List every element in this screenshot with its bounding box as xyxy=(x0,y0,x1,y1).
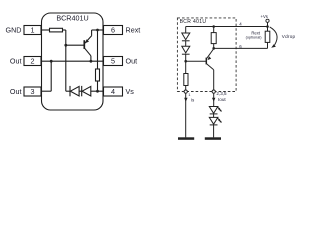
svg-text:2: 2 xyxy=(31,57,35,66)
svg-text:6: 6 xyxy=(111,26,115,35)
pin 3 box xyxy=(24,87,41,96)
svg-text:(optional): (optional) xyxy=(246,36,263,40)
ground bar right xyxy=(205,137,221,140)
junction base node xyxy=(64,44,67,47)
wire emitter node to pin 6 xyxy=(92,29,104,31)
wire R1 to base column xyxy=(63,29,66,31)
Vdrop arc arrowhead xyxy=(271,44,276,48)
transistor Q1 collector diagonal xyxy=(85,48,91,56)
junction R4 top xyxy=(212,25,215,28)
wire R2 top vertical xyxy=(97,30,99,69)
pin 6 box xyxy=(104,26,123,35)
junction emitter-Rext node xyxy=(96,29,99,32)
transistor Q2 emitter vertical xyxy=(213,47,215,50)
wire base horizontal xyxy=(66,44,84,46)
transistor Q2 collector diagonal xyxy=(207,64,214,70)
LED LD2 cathode bar xyxy=(210,124,218,126)
svg-text:1: 1 xyxy=(31,26,35,35)
svg-text:5: 5 xyxy=(111,57,115,66)
diode D3 cathode bar xyxy=(182,40,190,42)
svg-text:BCR401U: BCR401U xyxy=(56,14,88,23)
wire Out bus pin2 to pin5 xyxy=(42,60,104,62)
dashed box BCR401U xyxy=(177,18,236,92)
svg-text:Iout: Iout xyxy=(218,97,226,102)
wire R4 top xyxy=(213,27,215,33)
transistor Q1 base bar xyxy=(83,40,85,49)
wire LD1 to LD2 xyxy=(213,114,215,118)
wire pin1 to R1 xyxy=(42,29,50,31)
resistor R2 internal vertical xyxy=(96,69,100,81)
wire R3 to ground xyxy=(185,86,187,138)
pin 1 box xyxy=(24,26,41,35)
ground bar left xyxy=(178,137,194,140)
transistor Q1 collector vertical xyxy=(90,56,92,61)
transistor Q2 emitter arrow xyxy=(208,56,212,60)
Vdrop arc arrow xyxy=(270,27,277,45)
transistor Q1 emitter diagonal xyxy=(85,36,92,44)
current arrow Is xyxy=(184,98,187,102)
wire +Vs link xyxy=(267,22,269,26)
pin 5 box xyxy=(104,57,123,66)
junction +Vs Rext node xyxy=(266,25,269,28)
junction Vs-diode node xyxy=(96,90,99,93)
resistor R3 vertical xyxy=(184,74,188,86)
svg-text:+Vs: +Vs xyxy=(261,14,268,19)
wire emitter node to Rext pin 6 xyxy=(214,47,268,49)
wire base node to R3 xyxy=(185,61,187,73)
svg-text:4: 4 xyxy=(111,87,115,96)
wire LD2 to ground xyxy=(213,125,215,137)
wire Vs top bus xyxy=(186,26,268,28)
svg-text:Is: Is xyxy=(191,98,194,103)
junction out bus pin3 xyxy=(50,60,53,63)
junction out bus collector xyxy=(90,60,93,63)
LED LD2 arrowhead a xyxy=(218,119,220,121)
wire top bus to diode D3 xyxy=(185,27,187,34)
svg-text:Out: Out xyxy=(10,87,22,96)
IC package outline U1 BCR401U xyxy=(42,13,104,110)
wire Rext bottom vertical xyxy=(267,42,269,48)
LED LD1 cathode bar xyxy=(210,113,218,115)
terminal circle pins 2,3,5 xyxy=(212,90,215,93)
svg-text:GND: GND xyxy=(6,25,22,34)
junction emitter Rext node xyxy=(212,47,215,50)
wire Rext top xyxy=(267,27,269,32)
pin 4 box xyxy=(104,87,123,96)
resistor Rext external xyxy=(265,31,270,42)
transistor Q1 emitter vertical xyxy=(91,30,93,36)
svg-text:Out: Out xyxy=(10,56,22,65)
LED LD2 emission arrow a xyxy=(217,118,220,120)
wire D4 to base node xyxy=(185,54,187,61)
resistor R4 vertical xyxy=(211,33,216,44)
diode D2 triangle xyxy=(82,86,91,96)
svg-text:3: 3 xyxy=(31,87,35,96)
svg-text:Vs: Vs xyxy=(126,87,135,96)
LED LD1 emission arrow a xyxy=(217,107,220,109)
pin 2 box xyxy=(24,57,41,66)
wire pin3 branch vertical xyxy=(50,61,52,91)
diode D3 triangle xyxy=(182,33,190,40)
wire base column to diode D1 xyxy=(66,90,70,92)
wire R2 bottom vertical xyxy=(97,81,99,91)
wire D1 to D2 xyxy=(79,90,82,92)
transistor Q2 emitter diagonal xyxy=(207,49,214,58)
wire base horizontal Q2 xyxy=(186,60,206,62)
terminal circle pin1 GND xyxy=(184,90,187,93)
LED LD2 arrowhead b xyxy=(220,121,222,123)
svg-text:BCR 401U: BCR 401U xyxy=(180,19,207,25)
diode D1 cathode bar xyxy=(69,86,71,96)
svg-text:Rext: Rext xyxy=(126,25,141,34)
diode D1 triangle xyxy=(70,86,79,96)
LED LD1 arrowhead b xyxy=(220,110,222,112)
diode D2 cathode bar xyxy=(81,86,83,96)
terminal circle +Vs xyxy=(266,19,269,22)
wire pin3 horizontal xyxy=(42,90,52,92)
wire base column vertical xyxy=(65,30,67,91)
resistor R1 internal horizontal xyxy=(50,28,63,32)
wire D2 to pin 4 xyxy=(91,90,104,92)
transistor Q2 base bar xyxy=(205,58,207,65)
current arrow Iout xyxy=(212,98,215,102)
LED LD2 triangle xyxy=(209,117,218,124)
diode D4 cathode bar xyxy=(182,53,190,55)
svg-text:Out: Out xyxy=(126,56,138,65)
wire D3 to D4 xyxy=(185,41,187,46)
LED LD2 emission arrow b xyxy=(218,120,221,122)
transistor Q1 emitter arrow xyxy=(85,39,89,43)
transistor Q2 collector vertical xyxy=(213,70,215,107)
svg-text:2,3,5: 2,3,5 xyxy=(216,91,227,96)
svg-text:Vdrop: Vdrop xyxy=(282,34,296,39)
wire R4 to emitter node xyxy=(213,44,215,49)
junction base node right xyxy=(184,60,187,63)
LED LD1 triangle xyxy=(209,107,218,114)
LED LD1 emission arrow b xyxy=(218,109,221,111)
diode D4 triangle xyxy=(182,46,190,53)
LED LD1 arrowhead a xyxy=(218,108,220,110)
